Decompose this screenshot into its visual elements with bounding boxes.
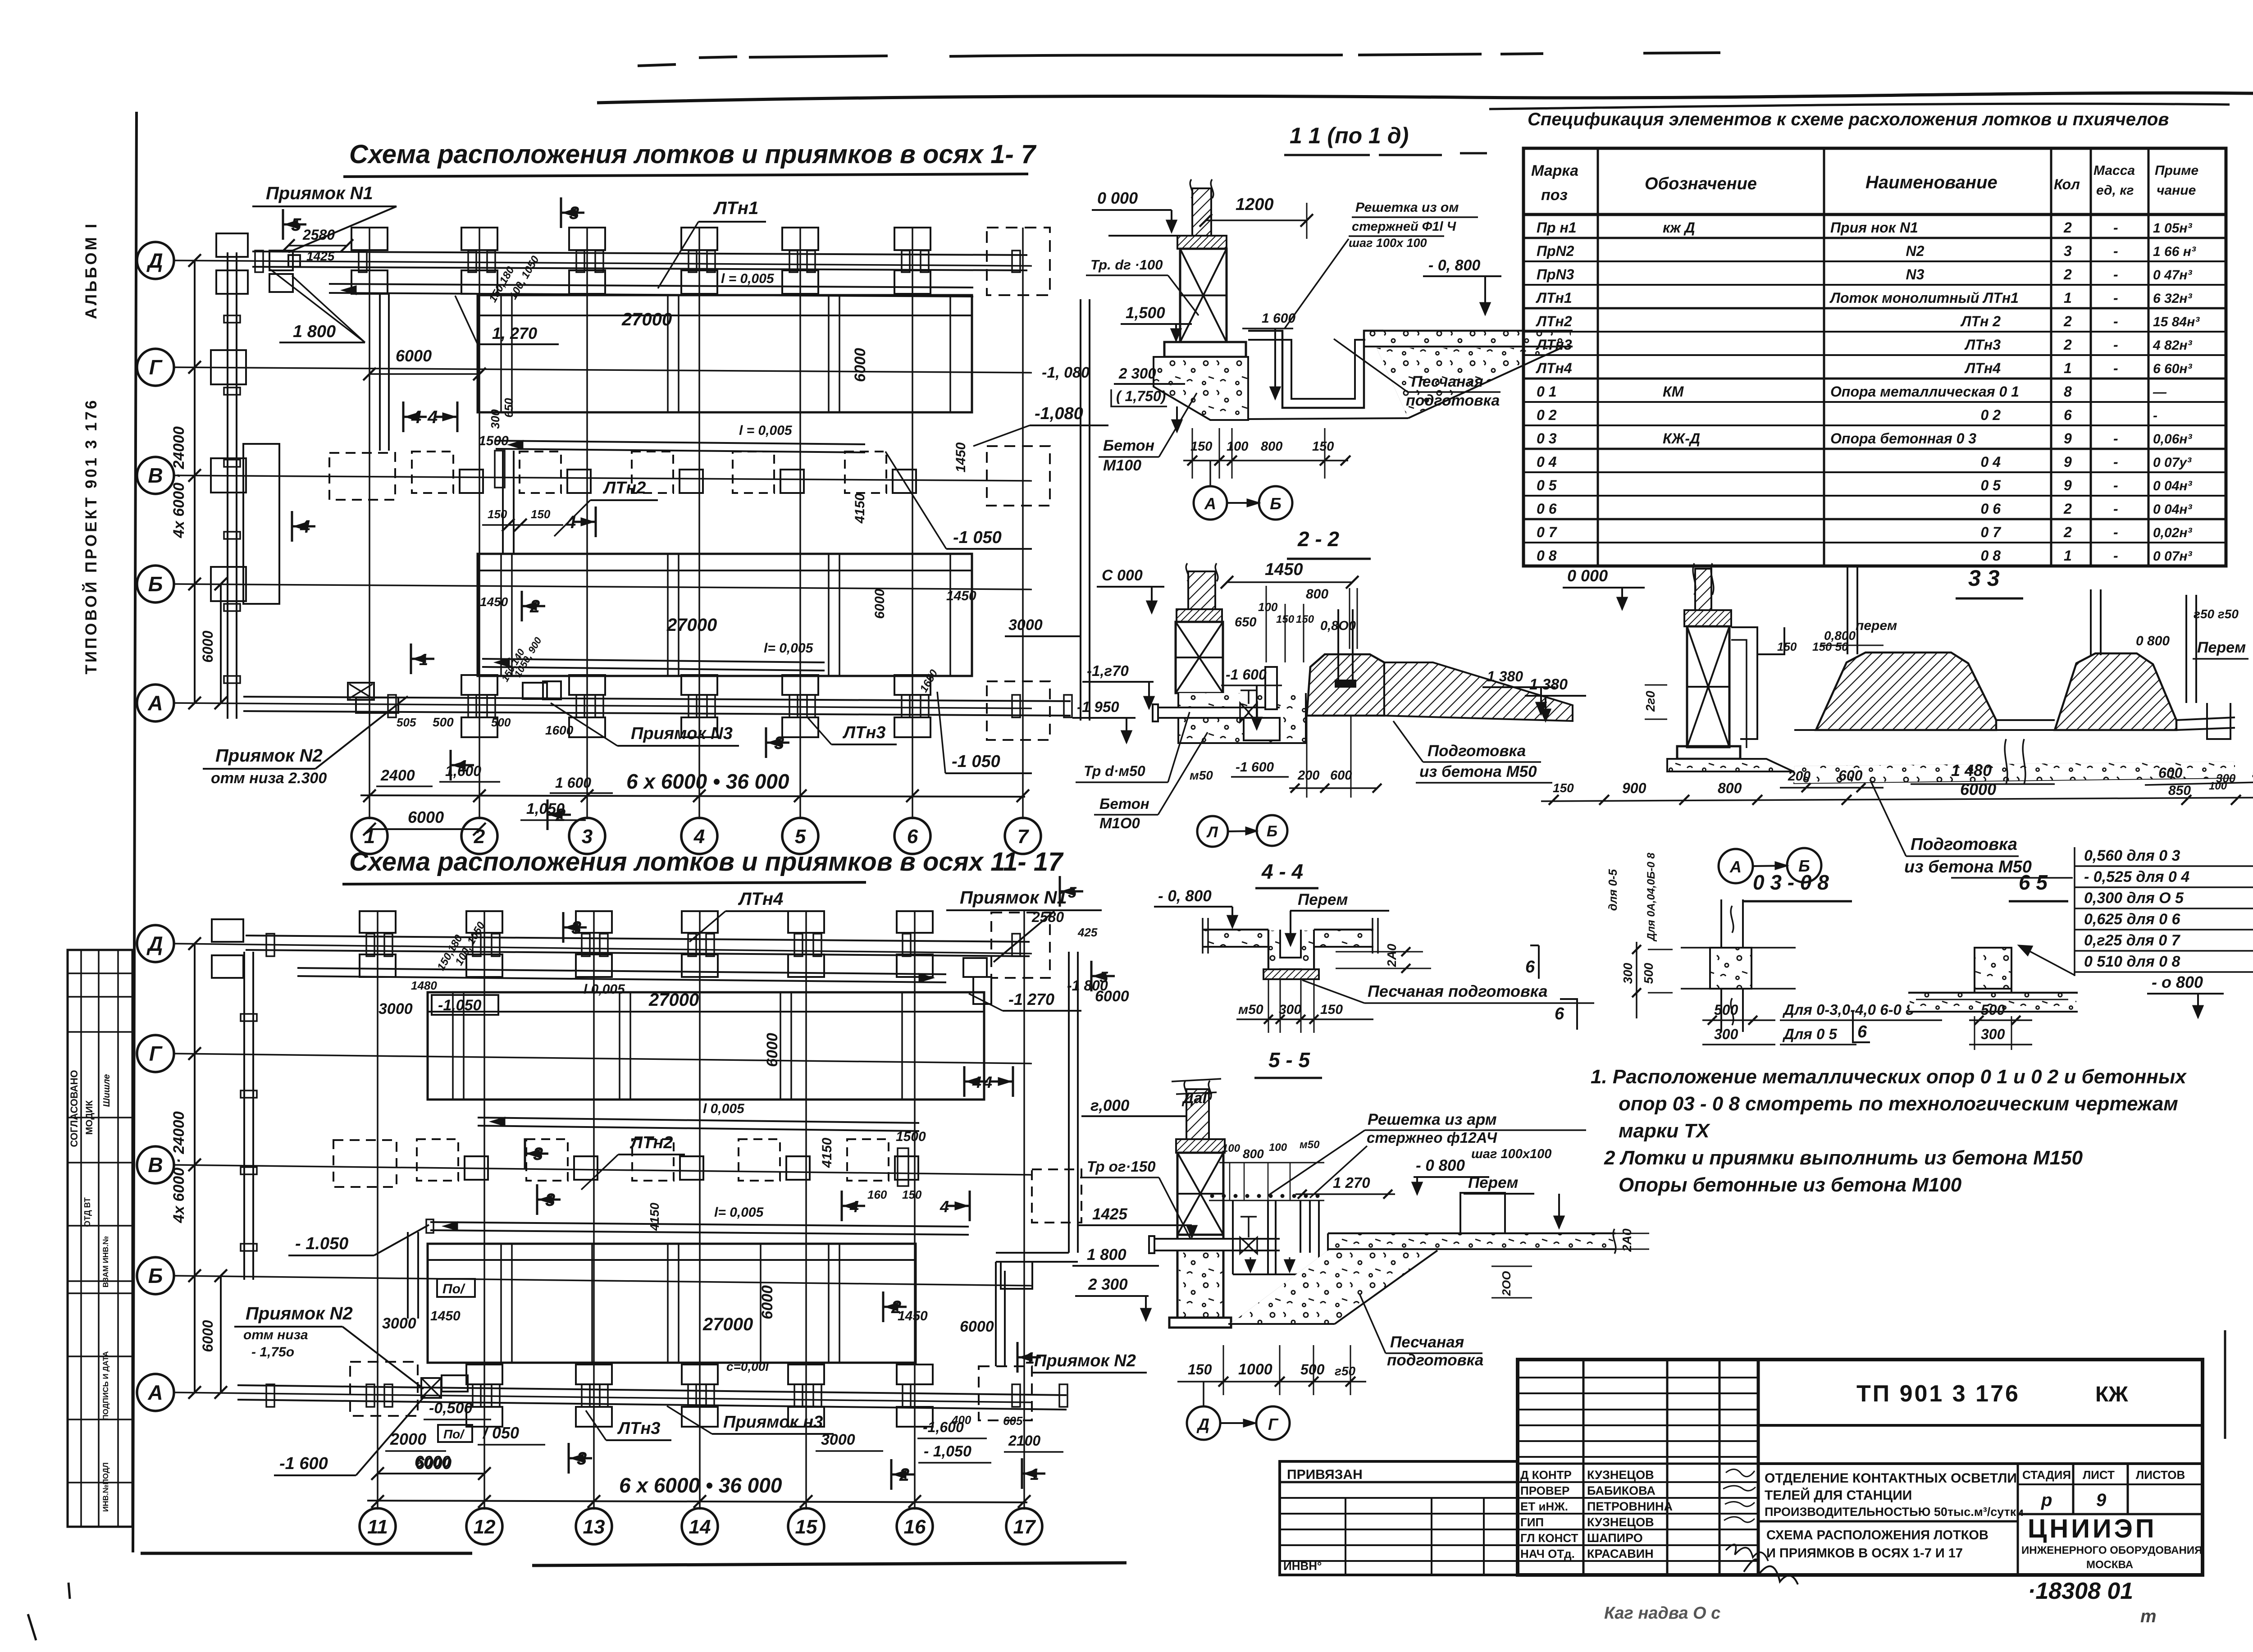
svg-text:ПРОВЕР: ПРОВЕР — [1520, 1484, 1569, 1497]
middle band dashed squares plan1 — [329, 453, 395, 500]
plan2 left corner columns — [212, 919, 243, 942]
plan2 second dim 6000 — [220, 1276, 222, 1392]
svg-text:Подготовка: Подготовка — [1911, 835, 2017, 854]
plan1 axis line Г — [174, 367, 1032, 373]
section mark 2 plan2 upper — [882, 1291, 885, 1322]
svg-text:0,625 для 0 6: 0,625 для 0 6 — [2084, 911, 2181, 928]
svg-text:4: 4 — [427, 407, 438, 427]
svg-text:7: 7 — [1017, 826, 1030, 848]
svg-text:Приямок н3: Приямок н3 — [723, 1413, 823, 1432]
svg-text:l= 0,005: l= 0,005 — [714, 1205, 764, 1220]
svg-text:ЛТн1: ЛТн1 — [713, 198, 758, 218]
svg-text:1 600: 1 600 — [555, 775, 591, 791]
svg-text:Песчаная: Песчаная — [1390, 1333, 1464, 1351]
svg-text:600: 600 — [2158, 765, 2183, 781]
svg-text:из бетона М50: из бетона М50 — [1419, 763, 1537, 780]
svg-text:150: 150 — [531, 507, 551, 521]
svg-text:0 2: 0 2 — [1537, 407, 1557, 423]
svg-text:Схема расположения лотков и: Схема расположения лотков и приямков в о… — [349, 140, 1037, 169]
specification row 3 — [1523, 284, 2226, 286]
plan1 left channel columns — [211, 350, 246, 384]
svg-text:5: 5 — [1068, 884, 1077, 901]
svg-text:2400: 2400 — [380, 767, 415, 784]
section mark 3 bottom plan1 — [765, 727, 767, 758]
plan2 right step shapes — [1001, 1262, 1032, 1289]
middle channel drop to basin R2 — [502, 451, 504, 554]
svg-text:подготовка: подготовка — [1387, 1351, 1483, 1369]
bottom frame middle segment — [532, 1563, 1126, 1565]
svg-text:Подготовка: Подготовка — [1428, 742, 1526, 760]
plan2 left dimension line vertical — [194, 944, 196, 1392]
section 4-4 slab right — [1314, 929, 1373, 931]
svg-text:ЛТн2: ЛТн2 — [602, 479, 646, 497]
plan2 axis line Б — [174, 1276, 1032, 1286]
svg-text:ЛТн4: ЛТн4 — [1964, 360, 2001, 376]
plan1 grid circle 4 — [681, 818, 717, 854]
plan1 grid line 2 — [479, 228, 480, 819]
title block sign rows — [1518, 1463, 1758, 1465]
section 2-2 view circles A-B — [1197, 816, 1228, 847]
plan2 grid line 16 — [914, 910, 916, 1510]
svg-text:стержнео ф12АЧ: стержнео ф12АЧ — [1367, 1129, 1497, 1146]
section 2-2 mound hatched — [1307, 654, 1384, 716]
svg-text:6: 6 — [907, 826, 918, 848]
middle slope channel plan1 — [496, 441, 865, 444]
svg-text:1450: 1450 — [430, 1309, 461, 1323]
svg-text:ЛТн4: ЛТн4 — [738, 889, 783, 909]
section 3-3 beam lines between mounds — [1996, 719, 2055, 721]
privyazan table — [1280, 1461, 1518, 1575]
svg-text:Тр d·м50: Тр d·м50 — [1084, 763, 1145, 779]
plan2 axis line Д — [174, 944, 1032, 954]
lotok channel along axis Д plan2 — [246, 936, 1030, 942]
svg-text:Каг надва О с: Каг надва О с — [1604, 1604, 1720, 1623]
specification row 14 — [1523, 542, 2226, 543]
svg-text:м50: м50 — [1190, 768, 1213, 782]
svg-text:2: 2 — [2063, 524, 2072, 540]
priamok N2 plan detail plan2 — [421, 1378, 441, 1398]
svg-text:1 270: 1 270 — [1333, 1174, 1370, 1191]
lotok channel along axis Д plan1 — [252, 251, 1027, 255]
priamok N1 plan detail — [269, 251, 293, 270]
svg-text:2А0: 2А0 — [1385, 944, 1399, 967]
svg-text:ПрN3: ПрN3 — [1537, 266, 1574, 283]
svg-text:( 1,750): ( 1,750) — [1116, 388, 1166, 404]
specification row 2 — [1523, 260, 2226, 262]
svg-text:6 5: 6 5 — [2019, 871, 2048, 894]
svg-text:СХЕМА РАСПОЛОЖЕНИЯ ЛОТКОВ: СХЕМА РАСПОЛОЖЕНИЯ ЛОТКОВ — [1766, 1528, 1988, 1542]
svg-text:6000: 6000 — [1960, 780, 1996, 799]
svg-text:И ПРИЯМКОВ В ОСЯХ 1-7 И 17: И ПРИЯМКОВ В ОСЯХ 1-7 И 17 — [1766, 1546, 1963, 1561]
svg-text:Опоры бетонные из бетона: Опоры бетонные из бетона М100 — [1619, 1174, 1962, 1196]
svg-text:0 04н³: 0 04н³ — [2153, 479, 2193, 493]
section 5-5 view circles D-G — [1203, 1382, 1204, 1406]
svg-text:4: 4 — [566, 512, 576, 532]
svg-text:ГИП: ГИП — [1520, 1515, 1544, 1529]
svg-text:3: 3 — [2064, 243, 2072, 259]
svg-text:9: 9 — [2064, 477, 2072, 493]
svg-text:600: 600 — [1330, 768, 1352, 783]
priamok N3 plan detail — [523, 683, 547, 699]
plan2 axis А column squares — [466, 1364, 502, 1384]
section 4-4 trench walls — [1268, 930, 1314, 969]
svg-text:АЛЬБОМ I: АЛЬБОМ I — [82, 222, 100, 319]
svg-text:шаг 100х 100: шаг 100х 100 — [1349, 236, 1427, 250]
svg-text:500: 500 — [491, 716, 511, 729]
svg-text:300: 300 — [1714, 1026, 1738, 1042]
svg-text:Приямок N2: Приямок N2 — [246, 1304, 353, 1323]
svg-text:-1 800: -1 800 — [1067, 977, 1108, 994]
svg-text:ПОДПИСЬ И ДАТА: ПОДПИСЬ И ДАТА — [101, 1351, 110, 1420]
section 3-3 base plate — [1677, 746, 1740, 759]
svg-text:6 32н³: 6 32н³ — [2153, 291, 2193, 306]
svg-text:800: 800 — [1306, 587, 1328, 602]
svg-text:Приямок N1: Приямок N1 — [960, 888, 1067, 908]
svg-text:6000: 6000 — [872, 589, 887, 619]
section 5-5 base plate — [1169, 1318, 1231, 1328]
plan1 grid line 3 — [586, 228, 588, 819]
section marks 3 middle plan2 — [524, 1138, 526, 1169]
monolithic lotok basin R2 — [478, 554, 972, 676]
specification row 12 — [1523, 495, 2226, 497]
plan2 axis circle А — [137, 1374, 174, 1411]
section mark 1 plan2 — [1017, 1342, 1019, 1373]
svg-text:150: 150 — [1553, 781, 1574, 795]
svg-text:0 04н³: 0 04н³ — [2153, 502, 2193, 517]
svg-text:500: 500 — [1642, 963, 1656, 984]
svg-text:160: 160 — [867, 1188, 887, 1201]
svg-text:1 800: 1 800 — [293, 322, 336, 341]
svg-text:1 380: 1 380 — [1529, 676, 1568, 693]
svg-text:Решетка из арм: Решетка из арм — [1368, 1111, 1497, 1128]
svg-text:Г: Г — [1268, 1415, 1279, 1433]
svg-text:4: 4 — [983, 1073, 992, 1091]
plan2 axis А dashed squares — [350, 1362, 418, 1416]
svg-text:подготовка: подготовка — [1406, 392, 1500, 409]
plan1 grid circle 7 — [1005, 818, 1041, 854]
svg-text:-: - — [2113, 313, 2118, 329]
svg-text:2 Лотки и приямки выполнит: 2 Лотки и приямки выполнить из бетона М1… — [1604, 1147, 2083, 1169]
svg-text:А: А — [1204, 494, 1216, 513]
svg-text:1 380: 1 380 — [1487, 668, 1523, 685]
svg-text:2: 2 — [2063, 501, 2072, 517]
section 2-2 anchor post with cap — [1337, 609, 1339, 685]
svg-text:4: 4 — [300, 517, 310, 537]
svg-text:1 480: 1 480 — [1951, 761, 1992, 780]
svg-text:Перем: Перем — [2197, 639, 2246, 656]
svg-text:СОГЛАСОВАНО: СОГЛАСОВАНО — [68, 1070, 80, 1147]
svg-text:Перем: Перем — [1468, 1174, 1518, 1191]
svg-text:1 05н³: 1 05н³ — [2153, 221, 2193, 236]
svg-text:800: 800 — [1243, 1147, 1264, 1161]
svg-text:0 7: 0 7 — [1537, 524, 1558, 540]
svg-text:Б: Б — [1270, 494, 1282, 513]
svg-text:ОТДЕЛЕНИЕ КОНТАКТНЫХ ОСВЕТЛИ: ОТДЕЛЕНИЕ КОНТАКТНЫХ ОСВЕТЛИ — [1765, 1471, 2017, 1486]
svg-text:-: - — [2113, 243, 2118, 259]
section marks bottom plan2 — [890, 1459, 893, 1490]
plan1 grid circle 1 — [351, 818, 388, 854]
svg-text:0 4: 0 4 — [1537, 454, 1557, 470]
svg-text:ЛТн4: ЛТн4 — [1536, 360, 1572, 376]
svg-text:150: 150 — [488, 507, 507, 521]
plan1 second dim line 6000 — [220, 584, 222, 703]
specification row 4 — [1523, 307, 2226, 310]
svg-text:5 - 5: 5 - 5 — [1268, 1048, 1310, 1072]
section 5-5 column lower speckled part — [1179, 1252, 1222, 1318]
svg-text:-: - — [2113, 454, 2118, 470]
plan1 bottom dimension line 36000 — [360, 795, 1025, 797]
slope channel above basin R1 — [329, 284, 973, 288]
plan2 axis Д column squares — [360, 911, 396, 933]
svg-text:ТЕЛЕЙ ДЛЯ СТАНЦИИ: ТЕЛЕЙ ДЛЯ СТАНЦИИ — [1765, 1488, 1912, 1503]
svg-text:ИНВН°: ИНВН° — [1283, 1559, 1322, 1573]
svg-text:6 х 6000 • 36 000: 6 х 6000 • 36 000 — [619, 1474, 782, 1497]
svg-text:-1,080: -1,080 — [1035, 404, 1083, 423]
svg-text:1425: 1425 — [306, 249, 335, 263]
svg-text:300: 300 — [1981, 1026, 2005, 1042]
svg-text:3: 3 — [774, 733, 784, 753]
svg-text:чание: чание — [2157, 183, 2196, 198]
detail 03-08 side ticks — [1681, 947, 1796, 949]
svg-text:6000: 6000 — [852, 348, 869, 382]
svg-text:В: В — [148, 1153, 163, 1177]
middle band dashed squares plan2 — [333, 1140, 397, 1187]
svg-text:6 60н³: 6 60н³ — [2153, 361, 2193, 376]
svg-text:ЛТн3: ЛТн3 — [842, 723, 885, 742]
svg-text:200: 200 — [1297, 768, 1319, 783]
svg-text:с=0,00l: с=0,00l — [726, 1360, 769, 1374]
plan2 grid circle 16 — [897, 1508, 933, 1544]
svg-text:6000: 6000 — [200, 1320, 216, 1352]
specification row 8 — [1523, 401, 2226, 403]
section 4-4 slab left — [1203, 929, 1268, 931]
svg-text:В: В — [148, 464, 163, 487]
svg-text:-1 270: -1 270 — [1008, 990, 1054, 1009]
svg-text:11: 11 — [367, 1516, 388, 1538]
svg-text:0,300 для О 5: 0,300 для О 5 — [2084, 890, 2184, 907]
title block outer frame — [1518, 1360, 2203, 1575]
plan1 axis circle А — [137, 685, 174, 721]
section 1-1 sand wedge — [1377, 348, 1561, 418]
svg-text:3000: 3000 — [382, 1315, 416, 1332]
svg-text:- 0,525 для 0 4: - 0,525 для 0 4 — [2084, 868, 2189, 885]
detail 03-08 pier — [1710, 948, 1751, 989]
svg-text:НАЧ ОТд.: НАЧ ОТд. — [1520, 1547, 1575, 1561]
svg-text:-: - — [2113, 548, 2118, 564]
svg-text:2 300: 2 300 — [1088, 1276, 1128, 1293]
svg-text:Бетон: Бетон — [1099, 795, 1149, 812]
svg-text:-0,500: -0,500 — [429, 1400, 472, 1417]
svg-text:- 1.050: - 1.050 — [295, 1234, 348, 1253]
svg-text:Тр ог·150: Тр ог·150 — [1087, 1158, 1156, 1175]
right frame lower tick — [2224, 1330, 2226, 1439]
section marks 4 middle row — [402, 402, 405, 432]
svg-text:По/: По/ — [443, 1427, 465, 1441]
svg-text:·18308 01: ·18308 01 — [2028, 1578, 2133, 1604]
svg-text:3: 3 — [545, 1190, 555, 1210]
svg-text:-1 050: -1 050 — [953, 528, 1002, 547]
svg-text:6: 6 — [1857, 1022, 1867, 1041]
section mark 5 top — [282, 209, 284, 240]
vertical channel drop to middle band left — [379, 294, 381, 451]
svg-text:5: 5 — [291, 215, 301, 235]
svg-text:А: А — [1729, 858, 1742, 876]
plan2 grid circle 14 — [682, 1508, 718, 1544]
svg-text:4х 6000 · 24000: 4х 6000 · 24000 — [170, 1111, 187, 1223]
slope arrow l=0,005 below R3 — [478, 1118, 919, 1123]
svg-text:Перем: Перем — [1298, 891, 1348, 908]
plan1 axis Д column squares — [351, 228, 388, 250]
svg-text:300: 300 — [1621, 963, 1635, 984]
svg-text:1: 1 — [2064, 290, 2072, 306]
plan1 grid line 6 — [912, 228, 913, 819]
svg-text:9: 9 — [2096, 1490, 2107, 1510]
section 5-5 trench walls — [1267, 1200, 1269, 1274]
svg-text:N2: N2 — [1906, 243, 1925, 259]
svg-text:Шишле: Шишле — [102, 1074, 112, 1107]
stray mark bottom left — [68, 1583, 70, 1599]
svg-text:0,800: 0,800 — [1824, 629, 1856, 643]
section 3-3 concrete speckle under column — [1667, 759, 1793, 771]
svg-text:0,02н³: 0,02н³ — [2153, 525, 2193, 540]
svg-text:Песчаная: Песчаная — [1411, 373, 1483, 390]
svg-text:300: 300 — [488, 409, 502, 429]
svg-text:1450: 1450 — [953, 442, 968, 472]
svg-text:Приямок N2: Приямок N2 — [1034, 1351, 1136, 1370]
svg-text:2580: 2580 — [302, 227, 335, 243]
svg-text:ИНВ.№ПОДЛ: ИНВ.№ПОДЛ — [101, 1462, 110, 1512]
svg-text:6000: 6000 — [408, 808, 444, 826]
section 1-1 floor slab right — [1364, 330, 1573, 332]
section 1-1 concrete block speckled — [1154, 357, 1248, 420]
svg-text:150: 150 — [1312, 439, 1334, 454]
plan2 grid circle 17 — [1006, 1508, 1042, 1544]
plan2 grid line 17 — [1023, 910, 1025, 1510]
svg-text:- 0, 800: - 0, 800 — [1158, 887, 1212, 905]
section 2-2 valve symbol — [1240, 703, 1257, 722]
section 3-3 left mound hatched — [1816, 653, 1996, 730]
svg-text:Масса: Масса — [2093, 163, 2135, 178]
plan1 axis line Б — [174, 584, 1032, 589]
svg-text:6000: 6000 — [764, 1033, 781, 1067]
svg-text:Опора металлическая 0 1: Опора металлическая 0 1 — [1830, 383, 2019, 400]
section 1-1 base plate — [1164, 342, 1246, 357]
svg-text:500: 500 — [1300, 1361, 1325, 1378]
svg-text:1450: 1450 — [1265, 560, 1303, 579]
svg-text:—: — — [2153, 385, 2167, 400]
section marks 4 plan2 middle — [841, 1191, 843, 1221]
svg-text:т: т — [2140, 1606, 2157, 1626]
plan1 grid line 5 — [799, 228, 801, 819]
plan2 grid circle 15 — [788, 1508, 824, 1544]
svg-text:100: 100 — [1269, 1141, 1287, 1154]
svg-text:1: 1 — [2064, 548, 2072, 564]
svg-text:- 0, 800: - 0, 800 — [1428, 257, 1480, 274]
svg-text:3 3: 3 3 — [1968, 566, 2000, 591]
svg-text:12: 12 — [474, 1516, 496, 1538]
svg-text:0 07у³: 0 07у³ — [2153, 455, 2192, 470]
specification row 9 — [1523, 424, 2226, 426]
svg-text:Для 0А,04,0Б-0 8: Для 0А,04,0Б-0 8 — [1645, 853, 1657, 942]
svg-text:l = 0,005: l = 0,005 — [739, 423, 793, 438]
svg-text:650: 650 — [502, 398, 515, 418]
svg-text:СТАДИЯ: СТАДИЯ — [2022, 1468, 2071, 1482]
section 5-5 pipe — [1154, 1239, 1280, 1250]
middle slope channel plan2 — [430, 1222, 969, 1227]
svg-text:605: 605 — [1003, 1414, 1023, 1428]
detail 6 5 arrow from list to pier — [2019, 945, 2075, 975]
svg-text:ПЕТРОВНИНА: ПЕТРОВНИНА — [1587, 1500, 1673, 1513]
sheet frame left border — [133, 112, 137, 1552]
svg-text:100: 100 — [1227, 439, 1248, 454]
svg-text:100: 100 — [1222, 1142, 1241, 1155]
svg-text:ПРОИЗВОДИТЕЛЬНОСТЬЮ 50тыс.м³/с: ПРОИЗВОДИТЕЛЬНОСТЬЮ 50тыс.м³/сутки — [1765, 1505, 2024, 1519]
section mark 3 top plan1 — [560, 197, 562, 228]
svg-text:г50: г50 — [1335, 1364, 1356, 1378]
svg-text:200: 200 — [1788, 769, 1811, 784]
svg-text:1, 270: 1, 270 — [492, 324, 537, 342]
svg-text:4150: 4150 — [853, 493, 867, 524]
specification table outer frame — [1523, 148, 2226, 566]
svg-text:0 6: 0 6 — [1981, 501, 2001, 517]
section 1-1 view circles A-B — [1209, 461, 1211, 486]
svg-text:4х 6000 · 24000: 4х 6000 · 24000 — [170, 426, 187, 538]
plan2 axis circle В — [137, 1146, 174, 1183]
title block left subtable verticals — [1583, 1360, 1585, 1575]
section 5-5 perem block — [1460, 1193, 1505, 1233]
svg-text:900: 900 — [1622, 780, 1646, 796]
svg-text:2: 2 — [2063, 219, 2072, 236]
svg-text:Д: Д — [146, 932, 163, 955]
svg-text:-1,050: -1,050 — [438, 997, 481, 1014]
priamok N2 plan detail left — [348, 683, 374, 700]
svg-text:2: 2 — [529, 597, 540, 616]
svg-text:-: - — [2113, 477, 2118, 493]
svg-text:1500: 1500 — [479, 434, 509, 448]
svg-text:16: 16 — [904, 1516, 926, 1538]
svg-text:ГЛ КОНСТ: ГЛ КОНСТ — [1520, 1531, 1578, 1545]
plan1 grid line 1 — [369, 228, 370, 819]
svg-text:ед, кг: ед, кг — [2096, 183, 2134, 198]
middle channel drop to R4 — [407, 1232, 409, 1319]
svg-text:2: 2 — [555, 805, 566, 825]
plan2 axis line В — [174, 1165, 1032, 1175]
plan2 grid circle 12 — [466, 1508, 502, 1544]
plan2 right vertical lotok — [1068, 952, 1070, 1253]
title block drawing name divider — [1758, 1520, 2018, 1523]
svg-text:150: 150 — [1188, 1361, 1212, 1378]
section 5-5 column X — [1177, 1153, 1223, 1235]
detail 03-08 section 6 flags — [1576, 998, 1578, 1030]
svg-text:ЕТ иНЖ.: ЕТ иНЖ. — [1520, 1500, 1568, 1513]
section mark 5 plan2 — [1059, 876, 1061, 907]
svg-text:1 1 (по 1 д): 1 1 (по 1 д) — [1290, 123, 1409, 148]
svg-text:-: - — [2113, 501, 2118, 517]
plan2 axis line А — [174, 1392, 1032, 1402]
plan1 axis А column squares — [461, 675, 497, 695]
section 2-2 column X — [1176, 622, 1223, 693]
svg-text:4 82н³: 4 82н³ — [2153, 338, 2193, 353]
svg-text:600: 600 — [1838, 767, 1863, 784]
section 3-3 break marks — [2005, 739, 2007, 784]
svg-text:Бетон: Бетон — [1103, 437, 1154, 454]
svg-text:0,06н³: 0,06н³ — [2153, 432, 2193, 447]
svg-text:100: 100 — [1258, 600, 1278, 614]
svg-text:марки ТХ: марки ТХ — [1619, 1120, 1710, 1142]
slope channel inside R2 — [482, 659, 825, 662]
svg-text:А: А — [147, 1381, 163, 1404]
section 3-3 wall above — [1695, 569, 1711, 610]
